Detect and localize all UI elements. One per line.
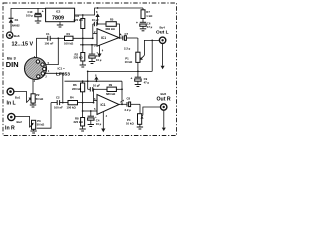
ground under P3	[30, 131, 36, 133]
wire: DIN pin to R channel riser	[44, 73, 62, 102]
op-amp2 supply pin 4 marker	[101, 112, 107, 132]
svg-text:R4: R4	[70, 96, 74, 100]
node signal into op1	[92, 37, 94, 39]
IC1 type label	[56, 66, 70, 77]
op-amp IC1b	[94, 95, 122, 115]
svg-text:R9: R9	[109, 83, 113, 87]
svg-text:IC1 =: IC1 =	[58, 66, 66, 70]
rail connector	[87, 71, 89, 89]
ground under C10	[35, 21, 41, 23]
op-amp2 supply pin 8 marker	[94, 73, 98, 82]
svg-text:Out L: Out L	[156, 30, 169, 36]
wire: DIN pin down to P2 top	[32, 79, 34, 93]
svg-text:100 nF: 100 nF	[54, 105, 63, 109]
dashed enclosure border	[3, 3, 177, 136]
potentiometer P2	[27, 93, 45, 105]
svg-text:12...15 V: 12...15 V	[12, 41, 34, 47]
svg-text:IC1: IC1	[101, 36, 106, 40]
op-amp 1 supply pin 8 marker	[96, 7, 100, 25]
ground under C9	[135, 85, 141, 87]
potentiometer P1	[125, 38, 160, 64]
capacitor C2 100n	[54, 96, 63, 110]
feedback drop to output	[121, 81, 123, 104]
wire: Bu1 to P2 wiper	[14, 92, 27, 103]
wire: Bu5 down to 0V marker	[163, 110, 165, 127]
svg-text:IC1: IC1	[101, 103, 106, 107]
svg-text:C10: C10	[28, 10, 33, 14]
output node op1	[119, 37, 121, 39]
output node op2	[121, 103, 123, 105]
wire: P1 bottom chain	[137, 62, 139, 77]
svg-text:+: +	[120, 32, 122, 36]
svg-text:+: +	[42, 10, 44, 14]
coupling capacitor C7 2.2u	[120, 32, 138, 51]
DIN connector Bu3 labels	[6, 56, 19, 69]
svg-text:10 kΩ: 10 kΩ	[125, 60, 133, 64]
wire: Bu4 down to 0V marker	[162, 44, 164, 66]
feedback capacitor 10uF (ch L)	[92, 18, 106, 26]
ground under cap	[140, 29, 146, 31]
resistor R3 220k	[74, 14, 85, 45]
ground under C3	[89, 62, 95, 64]
input column op2	[93, 89, 95, 102]
svg-text:680 kΩ: 680 kΩ	[106, 92, 116, 96]
svg-text:+: +	[131, 76, 133, 80]
resistor R8 220k to ground	[74, 103, 85, 129]
svg-text:C7: C7	[125, 32, 129, 36]
svg-text:220 kΩ: 220 kΩ	[74, 56, 84, 60]
svg-text:7809: 7809	[52, 15, 64, 21]
svg-text:10 µ: 10 µ	[96, 122, 102, 126]
svg-text:2.2 µ: 2.2 µ	[124, 46, 131, 50]
ground under P4	[137, 127, 143, 129]
svg-text:220 kΩ: 220 kΩ	[72, 87, 82, 91]
resistor R4 100k	[67, 96, 78, 110]
svg-text:C8: C8	[127, 97, 131, 101]
wire: Bu2 to P3 wiper	[15, 116, 30, 127]
svg-text:Bu6: Bu6	[14, 34, 20, 38]
svg-text:1N4002: 1N4002	[11, 23, 21, 27]
svg-text:100 µ: 100 µ	[26, 14, 33, 18]
potentiometer P4	[126, 104, 161, 127]
socket Bu2 In R	[5, 113, 22, 131]
feedback resistor R5 680k (ch L)	[106, 17, 120, 38]
socket Bu1 In L	[7, 88, 21, 106]
socket Bu5 Out R	[157, 92, 171, 110]
ground under R2	[80, 65, 86, 67]
svg-text:10 µ: 10 µ	[96, 58, 102, 62]
svg-text:LF353: LF353	[56, 71, 70, 77]
svg-text:2.2 µ: 2.2 µ	[125, 108, 132, 112]
svg-text:100 kΩ: 100 kΩ	[64, 41, 74, 45]
wire: channel L input line	[36, 37, 47, 39]
svg-text:Bu1: Bu1	[15, 95, 21, 99]
svg-text:+: +	[122, 99, 124, 103]
svg-text:Bu2: Bu2	[17, 120, 23, 124]
wire: supply input	[11, 8, 46, 18]
svg-text:+: +	[136, 21, 138, 25]
socket Bu6	[7, 23, 20, 39]
svg-text:1 kΩ: 1 kΩ	[146, 14, 153, 18]
svg-text:100 nF: 100 nF	[45, 41, 54, 45]
op-amp1 supply pin 4 marker	[97, 45, 103, 57]
node DIN riser on R line	[62, 102, 64, 104]
wire: output line drop to mid rail	[151, 40, 153, 72]
bias line pin 3	[80, 44, 97, 46]
op-amp IC1a	[94, 29, 122, 48]
capacitor C10 100u	[26, 8, 44, 20]
svg-text:220 kΩ: 220 kΩ	[74, 120, 84, 124]
capacitor 47u under R7	[136, 21, 153, 29]
ground under C4	[88, 125, 94, 127]
svg-text:680 kΩ: 680 kΩ	[106, 27, 116, 31]
svg-text:In L: In L	[7, 101, 17, 107]
node DIN riser on L line	[57, 37, 59, 39]
capacitor C4 10u to ground	[88, 111, 102, 126]
bias line pin 5	[83, 110, 97, 112]
svg-text:Out R: Out R	[157, 96, 171, 102]
feedback resistor R9 680k (ch R)	[106, 83, 122, 96]
ground under R8	[79, 129, 85, 131]
diode D1 1N4002	[9, 18, 21, 27]
resistor R6 220k from left rail	[72, 80, 85, 103]
capacitor C3 10u to ground	[89, 50, 102, 61]
svg-text:C2: C2	[56, 96, 60, 100]
resistor R2 220k to ground	[74, 45, 85, 65]
svg-text:IC2: IC2	[56, 10, 61, 14]
coupling capacitor C8 2.2u	[119, 97, 140, 112]
svg-text:10 µF: 10 µF	[92, 18, 99, 22]
svg-text:C1: C1	[46, 32, 50, 36]
svg-text:R5: R5	[110, 17, 114, 21]
capacitor C1 100n	[45, 32, 54, 45]
mid rail right part	[88, 70, 153, 72]
mid rail left part	[65, 80, 123, 82]
socket Bu4 Out L	[156, 25, 169, 43]
svg-text:220 kΩ: 220 kΩ	[74, 18, 84, 22]
svg-text:DIN: DIN	[6, 60, 19, 69]
DIN connector body	[25, 56, 50, 83]
feedback capacitor 10uF (ch R)	[88, 84, 107, 92]
svg-text:50 kΩ: 50 kΩ	[37, 123, 45, 127]
input column op1	[92, 24, 94, 38]
resistor R7 1k from rail	[141, 8, 153, 22]
svg-text:10 kΩ: 10 kΩ	[126, 122, 134, 126]
potentiometer P3	[30, 119, 46, 131]
svg-text:D1: D1	[15, 18, 19, 22]
riser from P3 area to R line	[37, 103, 51, 129]
svg-text:50 kΩ: 50 kΩ	[36, 97, 44, 101]
svg-text:10 µF: 10 µF	[93, 84, 100, 88]
svg-text:Bu4: Bu4	[160, 25, 166, 29]
wire: DIN pin to L line	[44, 38, 58, 64]
svg-text:100 kΩ: 100 kΩ	[67, 105, 77, 109]
resistor R1 100k	[64, 32, 93, 45]
regulator IC2 7809	[46, 8, 75, 25]
wire: channel R input line	[51, 102, 57, 104]
svg-text:47 µ: 47 µ	[144, 80, 150, 84]
capacitor C9 47u	[131, 76, 150, 84]
ground under P2	[30, 105, 36, 107]
wire: regulator output to top rail	[75, 8, 143, 15]
svg-text:47 µ: 47 µ	[147, 25, 153, 29]
ground under IC2	[57, 25, 63, 27]
svg-text:In R: In R	[5, 126, 15, 132]
riser to DIN top pin	[35, 38, 37, 59]
svg-text:R1: R1	[67, 32, 71, 36]
